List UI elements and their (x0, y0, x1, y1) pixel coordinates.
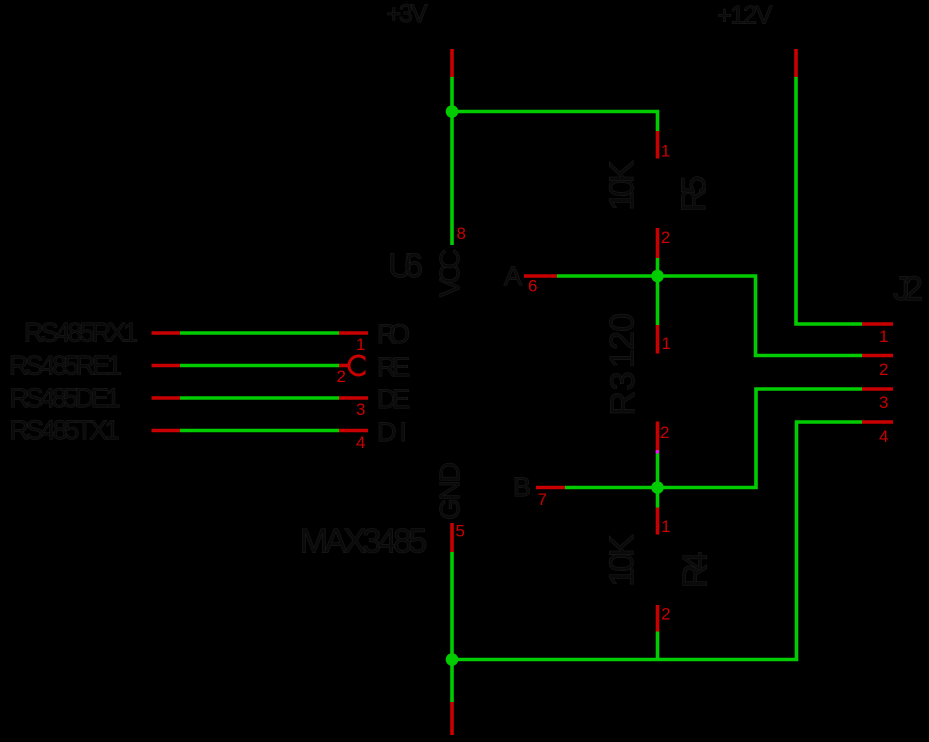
svg-text:1: 1 (356, 335, 365, 354)
svg-text:GND: GND (434, 462, 465, 520)
svg-text:U6: U6 (388, 247, 423, 285)
svg-text:2: 2 (661, 605, 670, 624)
svg-text:RS485DE1: RS485DE1 (10, 383, 121, 413)
svg-text:3: 3 (879, 393, 888, 412)
svg-text:8: 8 (457, 224, 466, 243)
svg-text:1: 1 (661, 517, 670, 536)
svg-text:2: 2 (879, 360, 888, 379)
svg-text:7: 7 (538, 490, 547, 509)
svg-text:RE: RE (377, 352, 410, 382)
svg-text:VCC: VCC (434, 249, 465, 297)
svg-text:R5: R5 (675, 176, 713, 213)
svg-text:+3V: +3V (387, 0, 428, 28)
svg-text:2: 2 (660, 423, 669, 442)
svg-text:1: 1 (879, 327, 888, 346)
svg-text:10K: 10K (603, 160, 641, 210)
svg-text:5: 5 (456, 522, 465, 541)
svg-text:10K: 10K (603, 534, 641, 586)
svg-text:RS485RX1: RS485RX1 (24, 318, 138, 348)
svg-text:+12V: +12V (717, 1, 772, 29)
svg-text:DE: DE (377, 384, 410, 414)
svg-text:R3: R3 (604, 372, 642, 416)
svg-text:3: 3 (356, 400, 365, 419)
svg-text:1: 1 (662, 334, 671, 353)
svg-text:B: B (513, 472, 531, 502)
svg-text:2: 2 (337, 367, 346, 386)
svg-text:MAX3485: MAX3485 (300, 523, 428, 561)
svg-text:2: 2 (661, 228, 670, 247)
svg-text:4: 4 (356, 433, 365, 452)
svg-text:RO: RO (377, 319, 410, 349)
svg-text:R4: R4 (677, 552, 715, 589)
svg-text:6: 6 (528, 277, 537, 296)
svg-text:RS485RE1: RS485RE1 (9, 351, 122, 381)
svg-text:DI: DI (377, 417, 407, 447)
svg-text:1: 1 (661, 142, 670, 161)
svg-text:J2: J2 (893, 270, 923, 308)
svg-text:120: 120 (604, 313, 642, 368)
svg-text:A: A (504, 261, 522, 291)
svg-text:4: 4 (879, 427, 888, 446)
svg-text:RS485TX1: RS485TX1 (10, 415, 120, 445)
